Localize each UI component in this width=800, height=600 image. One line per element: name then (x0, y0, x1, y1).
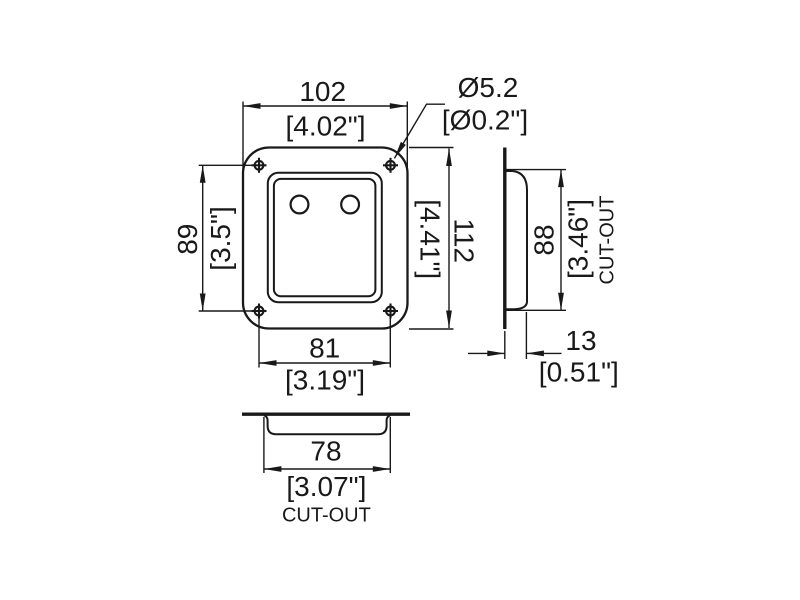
svg-text:88: 88 (528, 224, 559, 255)
extension line top (409, 147, 454, 149)
svg-text:[4.41"]: [4.41"] (415, 199, 446, 279)
svg-text:CUT-OUT: CUT-OUT (596, 196, 618, 285)
bottom view: plate seen edge-on (242, 413, 410, 416)
screw hole bottom-left with crosshair (252, 304, 267, 319)
connector hole right (341, 196, 359, 214)
screw hole top-left with crosshair (252, 158, 267, 173)
extension line left (263, 417, 265, 473)
svg-text:[4.02"]: [4.02"] (286, 111, 366, 142)
bottom view: dish recess profile (264, 415, 390, 434)
dimension line with arrows (259, 362, 390, 364)
svg-text:81: 81 (309, 333, 340, 364)
side view: dish recess profile (506, 171, 527, 309)
dimension 102 (overall width, top) (243, 102, 407, 176)
svg-text:89: 89 (172, 224, 203, 255)
svg-text:Ø5.2: Ø5.2 (458, 72, 519, 103)
svg-text:78: 78 (310, 436, 341, 467)
dish recess outer lip (front view) (268, 173, 382, 302)
leader line to screw hole diameter (394, 104, 445, 158)
svg-text:112: 112 (448, 218, 479, 263)
extension line right (389, 417, 391, 473)
svg-text:102: 102 (299, 76, 346, 107)
dimension line with arrows (560, 170, 562, 311)
dimension 13 (dish depth, side view) (468, 312, 562, 359)
extension line left (504, 331, 506, 359)
svg-text:[3.07"]: [3.07"] (286, 471, 366, 502)
svg-text:[0.51"]: [0.51"] (539, 357, 619, 388)
dimension 112 (overall height, right) (409, 148, 454, 330)
extension line right (525, 312, 527, 359)
plate outline (front view) (243, 148, 408, 329)
svg-text:13: 13 (565, 325, 596, 356)
dimension line with arrows (448, 149, 450, 329)
svg-text:[3.5"]: [3.5"] (205, 206, 236, 270)
extension line left (242, 102, 244, 176)
dish recess inner lip (front view) (274, 179, 376, 296)
dimension 89 (screw spacing, left) (199, 165, 252, 311)
extension line top (199, 164, 252, 166)
extension line bottom (506, 309, 566, 311)
extension line bottom (199, 310, 252, 312)
svg-text:CUT-OUT: CUT-OUT (282, 505, 371, 527)
extension line bottom (409, 328, 454, 330)
dimension line with arrows (243, 105, 407, 107)
dimension line with arrows (264, 468, 390, 470)
dimension arrow right (outside) (526, 352, 561, 354)
side view: plate seen edge-on (503, 148, 506, 330)
svg-text:[Ø0.2"]: [Ø0.2"] (442, 104, 528, 135)
svg-text:[3.46"]: [3.46"] (563, 199, 594, 279)
dimension line with arrows (202, 165, 204, 311)
svg-text:[3.19"]: [3.19"] (285, 365, 365, 396)
dimension arrow left (outside) (468, 352, 505, 354)
extension line right (406, 102, 408, 176)
extension line right (389, 312, 391, 368)
front view: recessed jack dish plate (243, 148, 408, 329)
screw hole bottom-right with crosshair (383, 304, 398, 319)
dimension 81 (screw spacing, bottom) (259, 312, 390, 368)
dimension 78 (cut-out width, bottom view) (264, 417, 390, 473)
extension line left (258, 312, 260, 368)
connector hole left (291, 196, 309, 214)
screw hole top-right with crosshair (383, 158, 398, 173)
extension line top (506, 169, 566, 171)
dimension 88 (cut-out height, side view) (506, 170, 566, 311)
